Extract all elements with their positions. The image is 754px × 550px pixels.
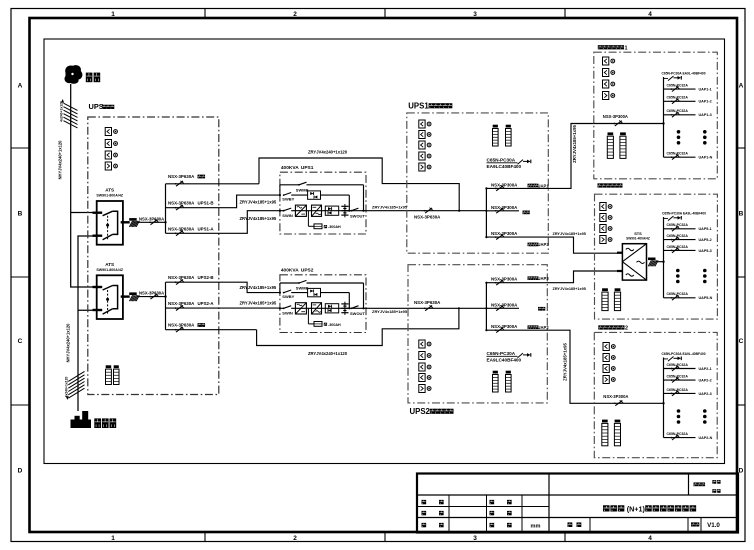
svg-text:ZRYJV4x185+1x95: ZRYJV4x185+1x95: [240, 200, 277, 205]
load cabinet meters: [603, 57, 609, 65]
svg-text:A: A: [739, 83, 744, 90]
svg-text:SWMB: SWMB: [296, 187, 309, 192]
cabinet bus: [663, 358, 665, 438]
title block grid: [548, 474, 550, 533]
svg-text:NSX-3P630A: NSX-3P630A: [168, 323, 195, 328]
svg-text:UAP5-2: UAP5-2: [699, 238, 712, 242]
svg-text:3: 3: [473, 11, 477, 18]
svg-text:C65N-PC30A EA9L-40BF400: C65N-PC30A EA9L-40BF400: [662, 352, 706, 356]
svg-text:NSX-3P630A: NSX-3P630A: [168, 174, 195, 179]
UPS2 output cable: [366, 307, 486, 309]
cabinet bus: [663, 77, 665, 157]
antiparallel diode block: [325, 304, 338, 313]
svg-text:NHYJV4x240+1x120: NHYJV4x240+1x120: [58, 140, 63, 180]
svg-text:400KVA: 400KVA: [281, 268, 299, 274]
svg-text:NSX-3P300A: NSX-3P300A: [603, 114, 628, 119]
svg-text:V1.0: V1.0: [707, 522, 720, 529]
svg-text:C: C: [18, 338, 23, 345]
svg-text:NSX-3P630A: NSX-3P630A: [414, 300, 441, 305]
svg-text:EA9LC40BF400: EA9LC40BF400: [487, 164, 522, 169]
row labels: shenhe/pizhun/riqi: [422, 500, 427, 504]
mains cable hatch marks: [64, 103, 78, 110]
label shidian: [86, 73, 93, 83]
label fadianji: [94, 418, 101, 428]
generator feeder wire: [78, 236, 97, 411]
input cabinet meters: [105, 128, 111, 136]
svg-text:UPS2-B: UPS2-B: [198, 275, 214, 280]
vertical dots: [677, 409, 681, 413]
STS input stubs: [617, 252, 622, 254]
svg-text:UAP5-N: UAP5-N: [699, 296, 713, 300]
svg-text:NSX-3P630A: NSX-3P630A: [168, 201, 195, 206]
output switch SWOUT: [348, 307, 350, 309]
UPS unit UPS2 box: [280, 275, 366, 333]
svg-text:UAP2: UAP2: [538, 325, 550, 330]
svg-text:UPS2-A: UPS2-A: [198, 301, 215, 306]
svg-text:UAP3: UAP3: [538, 242, 550, 247]
svg-text:EA9LC40BF400: EA9LC40BF400: [487, 358, 522, 363]
svg-text:ATS: ATS: [105, 188, 114, 193]
svg-text:NSX-3P630A: NSX-3P630A: [168, 301, 195, 306]
revision cell: [691, 522, 695, 526]
single-source load cabinet box: [595, 194, 718, 319]
svg-text:UAP1-N: UAP1-N: [699, 156, 713, 160]
UAP2 feeder (to dual-source cab 2): [486, 330, 594, 403]
svg-text:NHYJV4x240+1x120: NHYJV4x240+1x120: [66, 323, 71, 363]
ATS unit: [97, 275, 123, 319]
stage cell: construction drawing / design stage: [694, 482, 698, 486]
svg-text:NSX-3P630A: NSX-3P630A: [139, 216, 164, 221]
generator branch to ATS2: [78, 309, 97, 311]
battery string: [307, 211, 309, 227]
ATS2 output wire to bus: [137, 296, 166, 298]
svg-text:B: B: [739, 211, 744, 218]
svg-text:UAP1: UAP1: [538, 183, 550, 188]
UPS input cabinet box: [88, 117, 219, 395]
load cabinet box: [594, 52, 718, 179]
svg-text:ATS: ATS: [105, 262, 114, 267]
svg-text:2: 2: [625, 326, 628, 332]
spare top bypass cable path: [259, 158, 459, 211]
svg-text:ZRYJV4x185+1x95: ZRYJV4x185+1x95: [240, 285, 277, 290]
svg-text:SWBY: SWBY: [282, 197, 294, 202]
svg-text:SW901-400A/4Z: SW901-400A/4Z: [626, 236, 650, 240]
busbar terminal racks: [493, 375, 499, 393]
battery string: [307, 308, 309, 324]
svg-text:NSX-3P630A: NSX-3P630A: [139, 291, 164, 296]
svg-text:ZRYJV4x185+1x95: ZRYJV4x185+1x95: [553, 232, 586, 236]
svg-text:4x240+1x120: 4x240+1x120: [59, 101, 63, 122]
svg-text:SWOUT: SWOUT: [350, 311, 365, 316]
sts cabinet battery racks: [602, 292, 608, 311]
UPS2 output switchboard box: [408, 265, 547, 403]
svg-text:UAP1-3: UAP1-3: [699, 113, 712, 117]
svg-text:4: 4: [648, 535, 652, 542]
svg-text:SWOUT: SWOUT: [350, 213, 365, 218]
svg-text:UPS1-B: UPS1-B: [198, 201, 214, 206]
title block outer: [417, 474, 738, 533]
svg-text:-300AH: -300AH: [328, 323, 341, 327]
svg-text:NSX-3P300A: NSX-3P300A: [491, 231, 518, 236]
UAP3 feeder from UPS1 (to STS): [486, 237, 622, 253]
main path SWIN rectifier inverter: [280, 307, 284, 309]
UPS1 output cable: [366, 210, 486, 212]
svg-text:ZRYJV4x185+1x95: ZRYJV4x185+1x95: [240, 301, 277, 306]
svg-text:UAP2-N: UAP2-N: [699, 436, 713, 440]
svg-text:ZRYJV4x185+1x95: ZRYJV4x185+1x95: [240, 216, 277, 221]
antiparallel diode block: [325, 206, 338, 215]
svg-text:2: 2: [293, 535, 297, 542]
generator icon: [71, 411, 92, 428]
cabinet battery racks: [607, 136, 613, 158]
ATS1 output wire to bus: [137, 221, 166, 223]
svg-text:C65N-PC30A: C65N-PC30A: [487, 351, 516, 356]
svg-text:2: 2: [293, 11, 297, 18]
switchboard meters: [419, 120, 425, 128]
svg-text:C65N-PC30A: C65N-PC30A: [487, 158, 516, 163]
svg-text:NSX-3P630A: NSX-3P630A: [414, 214, 441, 219]
switchboard meters: [419, 340, 425, 348]
ATS2 output coil: [129, 292, 137, 295]
incoming breaker from UPS: [424, 307, 426, 309]
svg-text:ZRYJV4x185+1x95: ZRYJV4x185+1x95: [372, 204, 408, 209]
row labels: sheji/jiaodui/danwei: [490, 500, 495, 504]
ATS unit: [97, 201, 123, 245]
main title: dual-bus (N+1) system diagram: [603, 505, 610, 511]
main path SWIN rectifier inverter: [280, 210, 284, 212]
svg-text:UAP2-3: UAP2-3: [699, 392, 712, 396]
svg-text:UAP5-3: UAP5-3: [699, 249, 712, 253]
UAP1 feeder (to dual-source cab 1): [486, 124, 593, 189]
generator cable hatch marks: [68, 388, 84, 398]
svg-text:B: B: [18, 211, 23, 218]
svg-text:1: 1: [111, 535, 115, 542]
svg-text:SWMB: SWMB: [296, 286, 309, 291]
bus B (ATS2 outputs): [165, 282, 167, 330]
sts cabinet meters: [600, 203, 606, 211]
svg-text:D: D: [739, 468, 744, 475]
svg-text:UPS1-A: UPS1-A: [198, 226, 215, 231]
svg-text:NSX-3P630A: NSX-3P630A: [168, 275, 195, 280]
sts cabinet bus: [663, 217, 665, 298]
UAP3 feeder from UPS2 (to STS): [486, 271, 622, 283]
svg-text:UPS1: UPS1: [408, 101, 429, 110]
svg-text:A: A: [18, 83, 23, 90]
svg-text:UPS2: UPS2: [410, 407, 431, 416]
svg-text:D: D: [18, 468, 23, 475]
svg-text:C: C: [739, 338, 744, 345]
maintenance bypass SWMB: [279, 283, 281, 293]
svg-text:NSX-3P300A: NSX-3P300A: [491, 182, 518, 187]
svg-text:1: 1: [625, 45, 628, 51]
svg-text:1: 1: [111, 11, 115, 18]
svg-text:ZRYJV4x185+1x95: ZRYJV4x185+1x95: [562, 343, 567, 381]
svg-text:C65N-PC30A EA9L-40BF400: C65N-PC30A EA9L-40BF400: [662, 72, 706, 76]
svg-text:STS: STS: [634, 231, 642, 236]
svg-text:NSX-3P300A: NSX-3P300A: [491, 324, 518, 329]
maintenance bypass SWMB: [279, 185, 281, 195]
output switch SWOUT: [348, 210, 350, 212]
svg-text:4: 4: [648, 11, 652, 18]
svg-text:ZRYJV4x185+1x95: ZRYJV4x185+1x95: [372, 309, 408, 314]
svg-text:SW901-800A/4Z: SW901-800A/4Z: [96, 268, 124, 272]
mains branch to ATS1: [71, 212, 97, 214]
busbar terminal racks: [493, 129, 499, 147]
load cabinet meters: [603, 343, 609, 351]
svg-text:UAP1-1: UAP1-1: [699, 88, 712, 92]
load cabinet box: [594, 332, 717, 457]
svg-text:UAP2-1: UAP2-1: [699, 367, 712, 371]
svg-text:ZRYJV4x185+1x95: ZRYJV4x185+1x95: [572, 125, 577, 163]
svg-text:C65N-PC30A EA9L-40BF400: C65N-PC30A EA9L-40BF400: [662, 211, 706, 215]
spare bottom bypass cable path: [257, 308, 459, 345]
STS output coil: [648, 258, 656, 261]
svg-text:SW901-800A/4Z: SW901-800A/4Z: [96, 194, 124, 198]
svg-text:4x240+1x120: 4x240+1x120: [64, 376, 68, 397]
utility transformer (shi dian) icon: [65, 65, 83, 84]
ATS1 output coil: [129, 218, 137, 221]
svg-text:ZRYJV4x185+1x95: ZRYJV4x185+1x95: [553, 287, 586, 291]
svg-text:UAP3: UAP3: [538, 276, 550, 281]
svg-text:SWIN: SWIN: [282, 311, 293, 316]
cabinet battery racks: [602, 423, 608, 445]
incoming breaker from UPS: [424, 210, 426, 212]
svg-text:NSX-3P630A: NSX-3P630A: [168, 226, 195, 231]
UPS unit UPS1 box: [280, 172, 366, 234]
vertical dots: [676, 269, 680, 273]
bus A (ATS1 outputs): [165, 184, 167, 234]
isolating contact stack: [344, 204, 346, 217]
isolating contact stack: [344, 302, 346, 315]
svg-text:400KVA: 400KVA: [281, 165, 299, 171]
static bypass SWBY + rectifier bridge: [283, 194, 285, 196]
svg-text:UPS2: UPS2: [301, 268, 314, 274]
svg-text:(N+1): (N+1): [627, 505, 646, 514]
svg-text:UAP2-2: UAP2-2: [699, 379, 712, 383]
distribution bus: [485, 188, 487, 237]
drawing number label: [568, 522, 573, 527]
svg-text:NSX-3P300A: NSX-3P300A: [491, 277, 518, 282]
vertical dots: [677, 130, 681, 134]
svg-text:UPS1: UPS1: [301, 165, 314, 171]
svg-text:UPS: UPS: [89, 102, 104, 111]
input cabinet battery racks: [106, 369, 112, 384]
svg-text:3: 3: [473, 535, 477, 542]
svg-text:UAP1-2: UAP1-2: [699, 100, 712, 104]
UPS1 output switchboard box: [407, 113, 549, 253]
svg-text:ZRYJV4x240+1x120: ZRYJV4x240+1x120: [308, 351, 348, 356]
svg-text:SWIN: SWIN: [282, 213, 293, 218]
svg-text:ZRYJV4x240+1x120: ZRYJV4x240+1x120: [308, 150, 348, 155]
svg-text:UAP5-1: UAP5-1: [699, 227, 712, 231]
svg-text:NSX-3P300A: NSX-3P300A: [603, 394, 628, 399]
svg-text:SWBY: SWBY: [282, 294, 294, 299]
distribution bus: [485, 283, 487, 331]
svg-text:-300AH: -300AH: [328, 225, 341, 229]
mains feeder wire: [71, 84, 97, 287]
svg-text:NSX-3P300A: NSX-3P300A: [491, 302, 518, 307]
svg-text:mm: mm: [531, 523, 541, 529]
svg-text:NSX-3P300A: NSX-3P300A: [491, 205, 518, 210]
static bypass SWBY + rectifier bridge: [283, 292, 285, 294]
